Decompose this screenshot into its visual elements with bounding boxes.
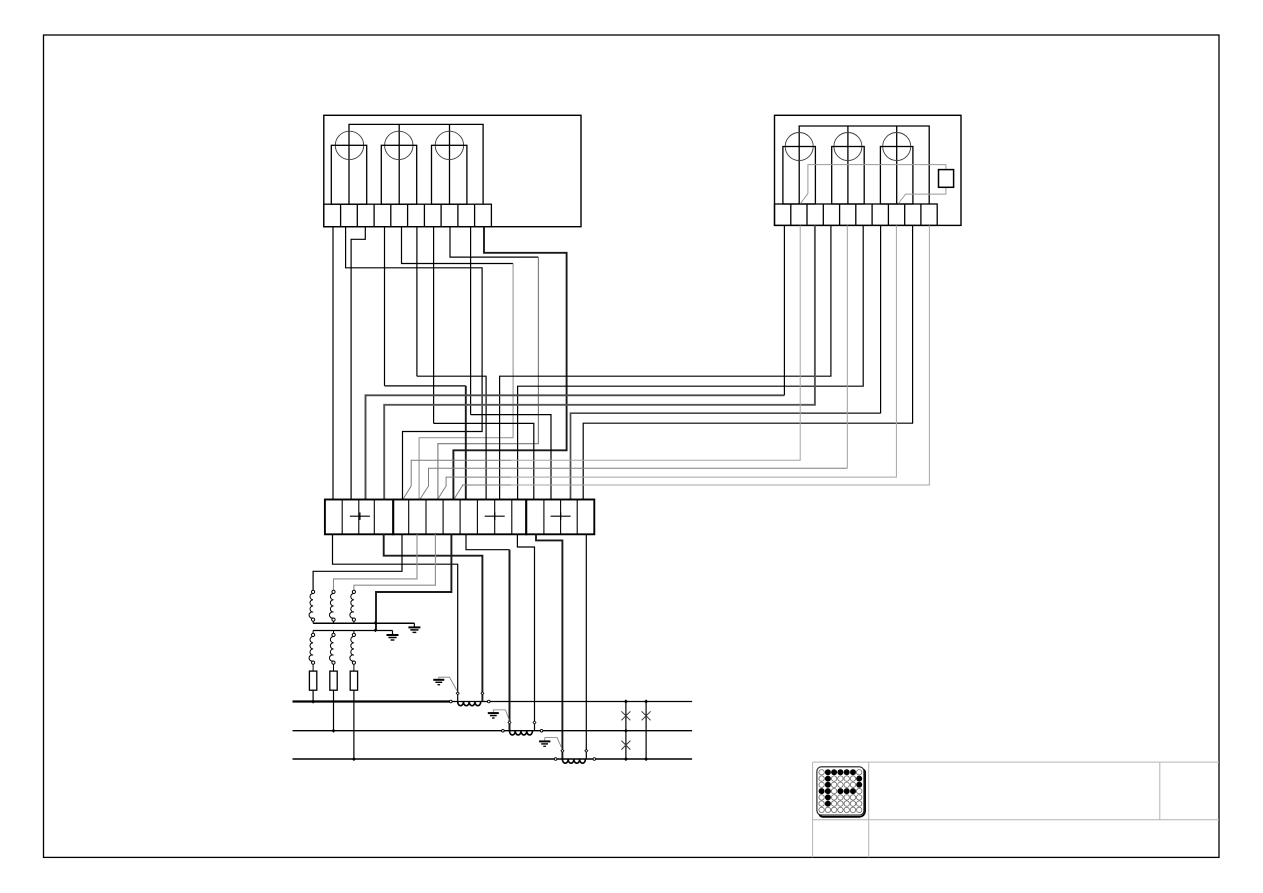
title block middle line bbox=[813, 819, 1219, 821]
winding box 2 bbox=[832, 147, 865, 205]
track T5: lb-t9 / block 3:2,3:3 / rb-t7 bbox=[471, 415, 551, 500]
bus tie link 2 bbox=[645, 702, 647, 760]
wire lb-t6 to track T1 bbox=[416, 227, 418, 377]
meter PI2 housing bbox=[775, 115, 962, 225]
current element circle 1 bbox=[335, 131, 363, 159]
title block top line bbox=[813, 761, 1219, 763]
logo plate bbox=[817, 767, 864, 815]
VT secondary coil 1 bbox=[309, 631, 315, 672]
wire lb-t8 jog bbox=[450, 227, 538, 257]
ground at CT2 bbox=[488, 710, 510, 721]
wire: drop to winding 2 bbox=[398, 124, 400, 204]
link symbol group 2 bbox=[485, 515, 505, 517]
wire lb-t4 to track T2 bbox=[384, 227, 386, 386]
logo shadow bbox=[819, 769, 865, 817]
test block group 3 bbox=[526, 500, 594, 535]
CT3 on bus C bbox=[554, 758, 595, 764]
wire block 1:4 to CT1 tap b (bold) bbox=[384, 534, 483, 701]
current element circle 1 bbox=[785, 133, 813, 161]
wire lb-t8 to test block 2:3 (gray) bbox=[438, 257, 539, 499]
meter terminal strip bbox=[324, 204, 492, 227]
auxiliary relay box bbox=[939, 170, 954, 188]
wire lb-t5 jog bbox=[402, 227, 514, 264]
resistor R3 bbox=[350, 671, 357, 690]
track T12: block 2:2 to rb-t5 (gray) bbox=[420, 468, 848, 499]
bus tie link 1 bbox=[625, 702, 627, 760]
VT primary coil 3 bbox=[350, 590, 356, 623]
winding box 1 bbox=[331, 145, 366, 204]
wire: VT primary star line bbox=[313, 622, 414, 624]
wire: drop to winding 2 bbox=[847, 126, 849, 204]
current element circle 2 bbox=[834, 133, 862, 161]
wire: drop to winding 3 bbox=[896, 126, 898, 204]
VT primary coil 1 bbox=[309, 590, 315, 623]
wire lb-t3 to test block 1:2 bbox=[351, 227, 365, 500]
winding box 1 bbox=[783, 147, 816, 205]
wire lb-t7 to track T6 bbox=[433, 227, 435, 424]
current element circle 3 bbox=[435, 131, 463, 159]
wire lb-t9 to track T5 bbox=[470, 227, 472, 415]
ground at CT3 bbox=[539, 738, 562, 749]
CT1 tap junction diamonds bbox=[456, 692, 459, 695]
winding box 2 bbox=[381, 145, 416, 204]
meter terminal strip bbox=[775, 204, 938, 225]
test block group 1 bbox=[325, 500, 393, 535]
track T1: lb-t6 / block 2:6,2:7 / rb-t4 bbox=[417, 376, 486, 499]
wire block 2:8 to CT2 tap b bbox=[517, 534, 534, 730]
wire lb-t10 to test block 2:4 (bold) bbox=[453, 227, 566, 500]
wire block 2:4 to VT neutral (bold) bbox=[376, 534, 451, 630]
current element circle 2 bbox=[385, 131, 413, 159]
CT2 on bus B bbox=[502, 729, 543, 735]
wire R2 to bus B bbox=[333, 690, 335, 731]
wire block 2:3 to VT coil 3 (gray) bbox=[354, 534, 436, 590]
VT primary coil 2 bbox=[329, 590, 335, 623]
bus C bbox=[293, 758, 693, 760]
logo dot matrix bbox=[819, 769, 863, 812]
wire R1 to bus A bbox=[312, 690, 314, 701]
track T13: block 2:3 to rb-t8 (gray) bbox=[438, 477, 512, 499]
track T6: lb-t7 / block 3:1,3:4 / rb-t9 bbox=[434, 423, 534, 499]
junction on star line bbox=[374, 621, 377, 625]
ground G2 (secondary neutral) bbox=[387, 631, 399, 641]
VT secondary coil 2 bbox=[329, 631, 335, 672]
wire block 2:5 to CT2 tap a (thick) bbox=[466, 534, 510, 549]
wire R3 to bus C bbox=[353, 690, 355, 759]
bus A (thick section) bbox=[293, 700, 451, 702]
title block left edge bbox=[812, 762, 814, 857]
junction R3/bus C bbox=[352, 757, 356, 761]
resistor R2 bbox=[330, 671, 337, 690]
wire: drop to winding 3 bbox=[449, 124, 451, 204]
track T2: lb-t4 / block 2:5,2:8 / rb-t6 bbox=[385, 385, 466, 387]
track T4: block 1:4 to rb-t3 (bold gray) bbox=[384, 225, 815, 499]
wire block 1:1 to CT1 tap a bbox=[333, 534, 458, 701]
winding box 3 bbox=[880, 147, 913, 205]
meter PI1 housing bbox=[324, 115, 581, 226]
auxiliary link wire (gray) of right meter bbox=[801, 165, 946, 204]
tie junctions bbox=[624, 699, 648, 761]
junction R2/bus B bbox=[332, 729, 336, 733]
open-link X marks bbox=[621, 711, 650, 749]
track T11: block 2:1 to rb-t2 (gray) bbox=[403, 460, 512, 499]
wire block 2:1 to VT coil 1 bbox=[313, 534, 402, 590]
link symbol group 1 bbox=[350, 515, 370, 517]
CT1 on bus A bbox=[450, 700, 491, 706]
wire block 2:2 to VT coil 2 (gray) bbox=[334, 534, 418, 590]
VT secondary coil 3 bbox=[350, 631, 356, 672]
link symbol group 3 bbox=[551, 515, 571, 517]
ground G1 (primary neutral) bbox=[408, 623, 420, 632]
junction on secondary line bbox=[374, 628, 377, 632]
track T14: block 2:4 to rb-t10 (gray) bbox=[454, 485, 511, 500]
wire: VT secondary common line bbox=[313, 630, 392, 632]
title block divider 1 bbox=[868, 762, 870, 857]
CT3 tap junction diamonds bbox=[561, 749, 564, 752]
wire lb-t1 to test block 1:1 bbox=[332, 227, 334, 500]
wire lb-t5 to test block 2:2 (gray) bbox=[419, 264, 513, 500]
wire block 3:1 to CT3 tap a (bold) bbox=[536, 534, 562, 759]
current element circle 3 bbox=[883, 133, 911, 161]
bus B bbox=[293, 730, 693, 732]
wire block 3:4 to CT3 tap b bbox=[585, 534, 587, 759]
wire lb-t2 to test block 2:1 bbox=[346, 227, 483, 500]
test block group 2 bbox=[393, 500, 526, 535]
bus A (thin section) bbox=[451, 701, 692, 703]
junction R1/bus A bbox=[311, 699, 315, 703]
ground at CT1 bbox=[433, 677, 457, 691]
winding box 3 bbox=[432, 145, 467, 204]
title block divider 2 bbox=[1159, 762, 1161, 820]
wire: meter internal top bus bbox=[349, 124, 483, 204]
CT2 tap junction diamonds bbox=[508, 721, 511, 724]
resistor R1 bbox=[309, 671, 316, 690]
track T3: block 1:3 to rb-t1 (bold) bbox=[366, 395, 785, 499]
wire: meter internal top bus bbox=[799, 126, 929, 204]
